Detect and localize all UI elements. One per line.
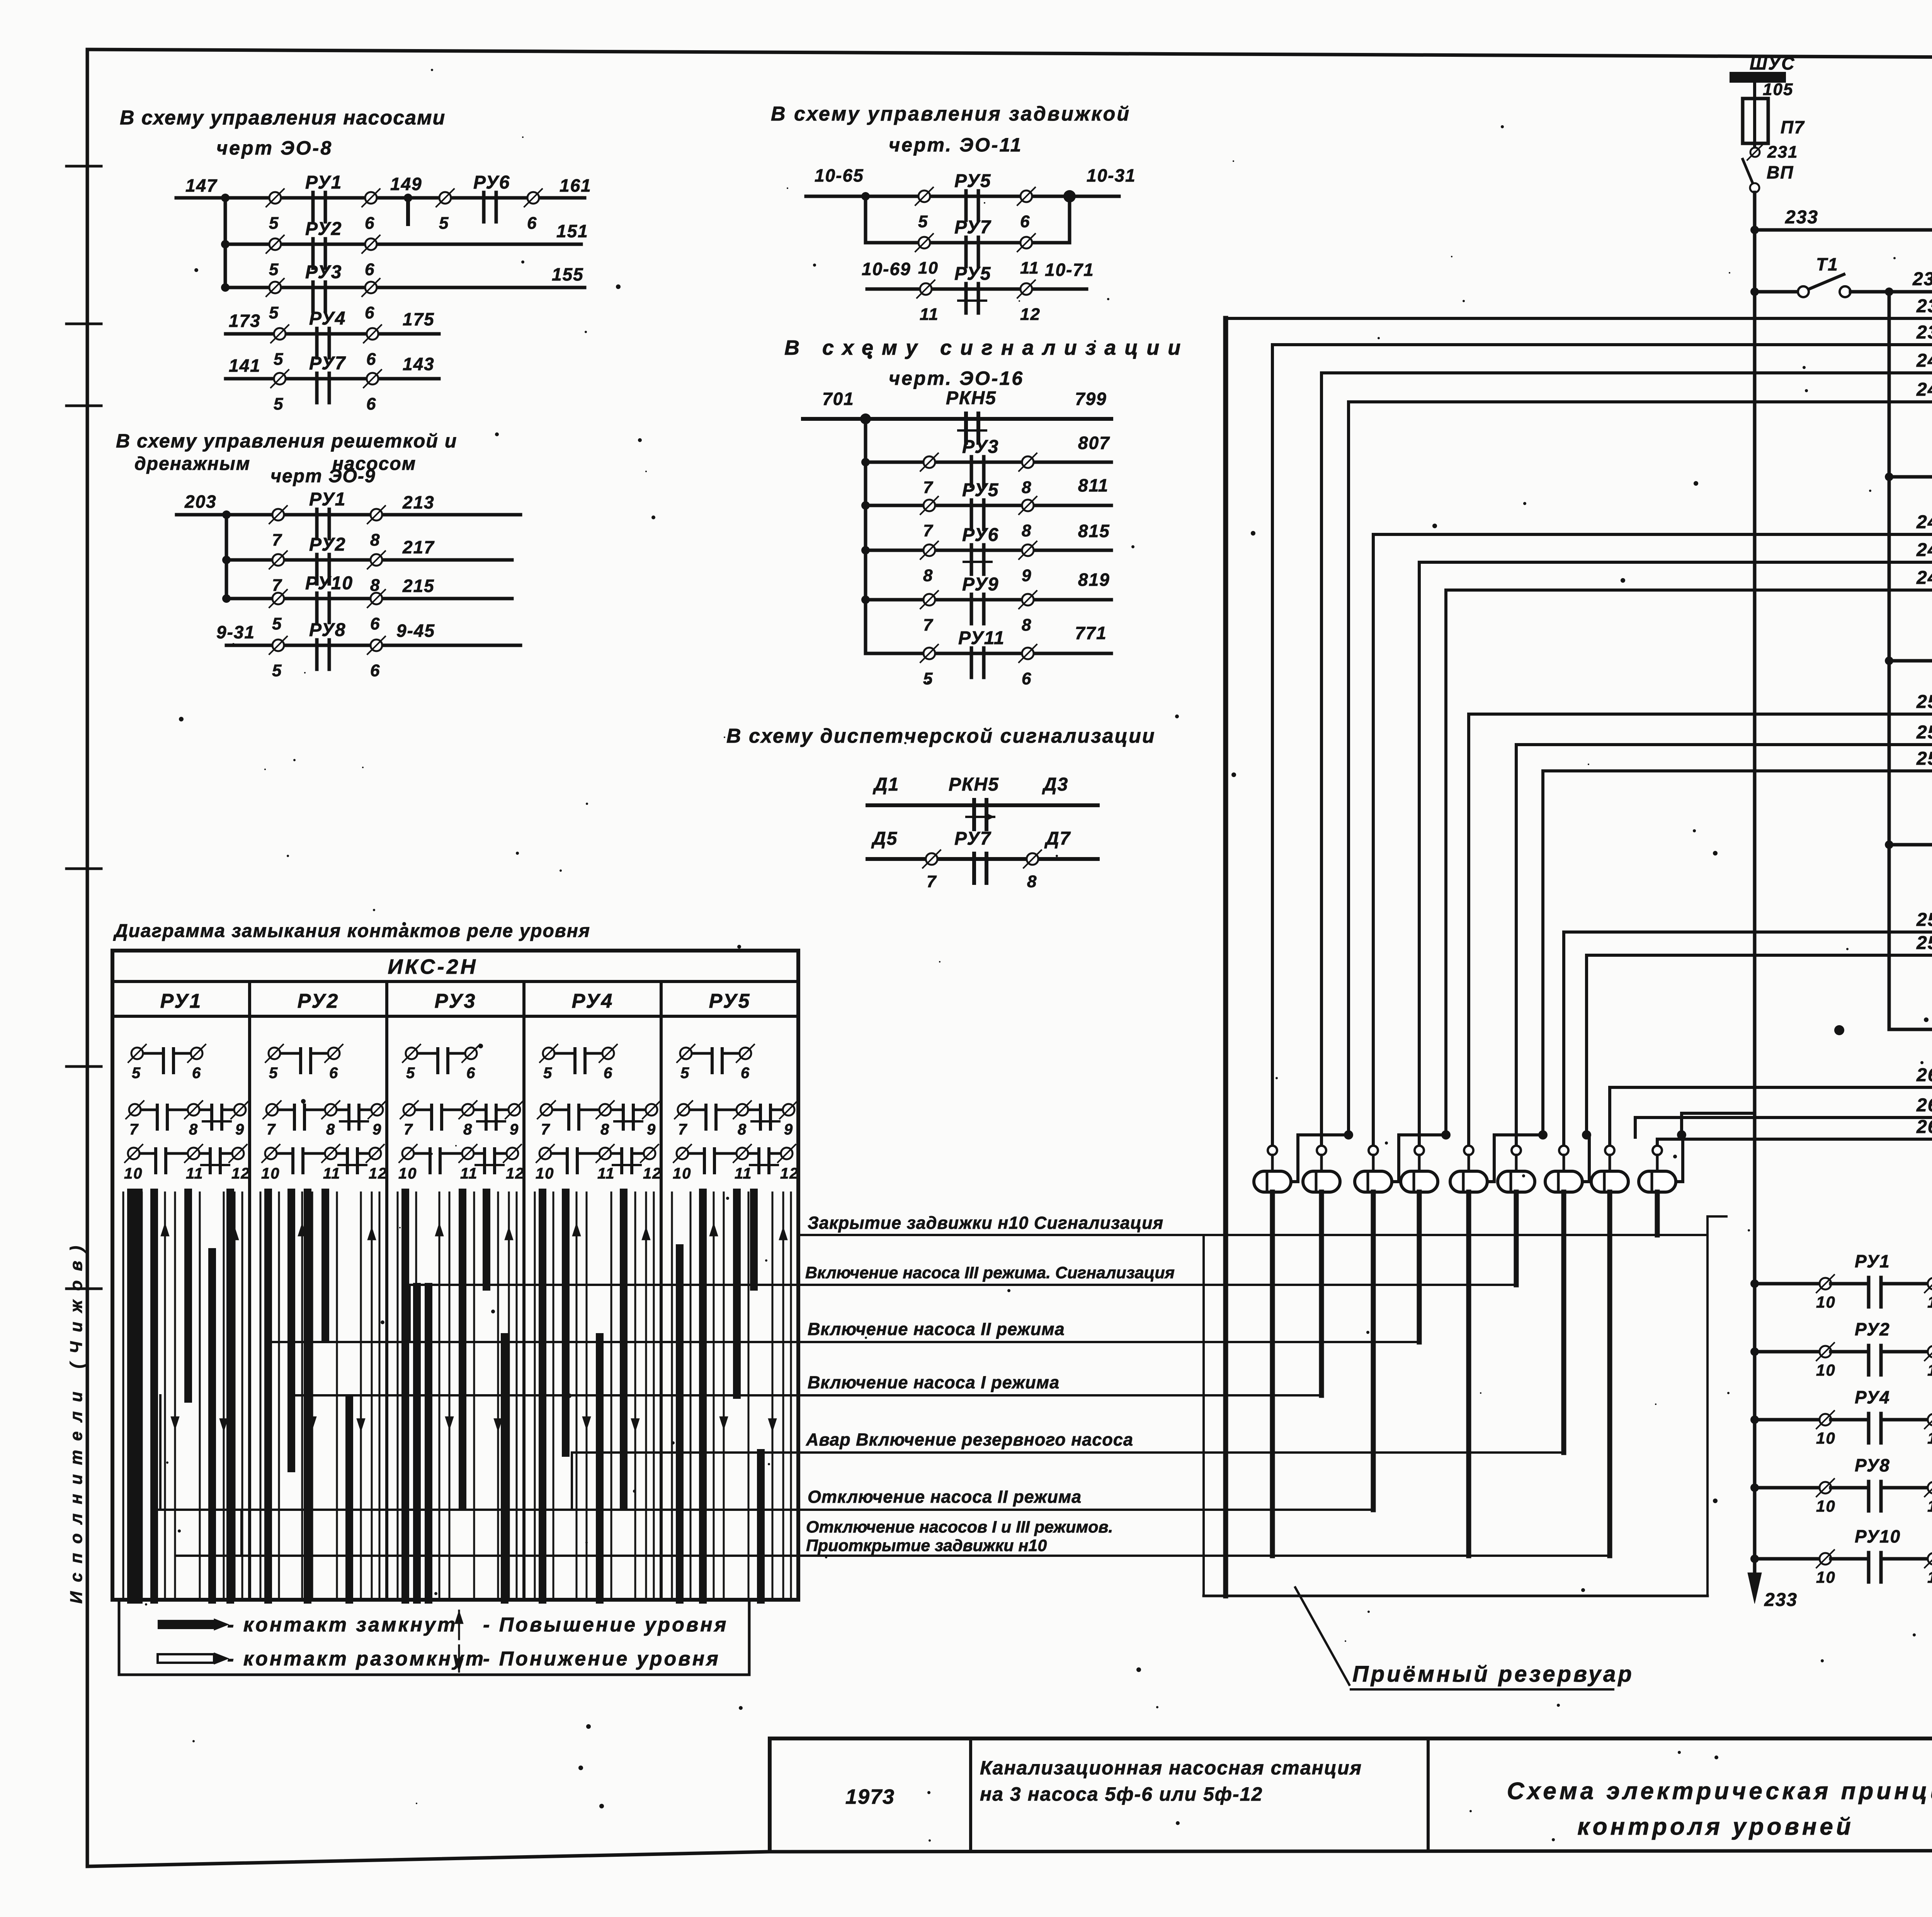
contact РУ9 7-8 bbox=[920, 574, 1037, 634]
svg-text:В схему диспетчерской сигнализ: В схему диспетчерской сигнализации bbox=[726, 725, 1156, 747]
svg-text:9-45: 9-45 bbox=[396, 621, 435, 641]
svg-text:6: 6 bbox=[366, 395, 376, 413]
wire 10-69 to 10-71 (EO-11 row 3) bbox=[862, 259, 1094, 289]
svg-text:11: 11 bbox=[1927, 1568, 1932, 1586]
svg-text:819: 819 bbox=[1078, 570, 1110, 590]
contact РКН5 crossed bbox=[946, 388, 997, 443]
contact РУ6 5-6 bbox=[436, 172, 542, 233]
svg-text:РУ5: РУ5 bbox=[954, 171, 991, 191]
svg-text:В схему управления задвижкой: В схему управления задвижкой bbox=[771, 103, 1131, 125]
svg-text:1973: 1973 bbox=[845, 1785, 895, 1808]
wire 255 horizontal + vertical drop to jog junction bbox=[1543, 771, 1932, 1137]
svg-text:10-31: 10-31 bbox=[1087, 165, 1136, 185]
svg-text:12: 12 bbox=[1020, 305, 1041, 324]
parallel branch wire РУ7 (EO-11 row 2) bbox=[866, 196, 1070, 243]
svg-text:- контакт замкнут: - контакт замкнут bbox=[227, 1614, 457, 1636]
svg-text:- Повышение уровня: - Повышение уровня bbox=[483, 1614, 728, 1636]
legend box bbox=[119, 1600, 749, 1675]
svg-text:7: 7 bbox=[923, 616, 934, 634]
svg-text:В схему сигнализации: В схему сигнализации bbox=[784, 336, 1189, 359]
svg-text:10: 10 bbox=[1816, 1497, 1836, 1515]
svg-text:7: 7 bbox=[404, 1121, 413, 1138]
svg-text:- контакт разомкнут: - контакт разомкнут bbox=[227, 1648, 485, 1670]
svg-text:РУ8: РУ8 bbox=[1855, 1455, 1890, 1475]
svg-text:Т1: Т1 bbox=[1816, 254, 1838, 274]
svg-text:РУ2: РУ2 bbox=[309, 534, 346, 555]
svg-text:9: 9 bbox=[510, 1121, 519, 1138]
wire Д5-Д7 with contact РУ7 7-8 bbox=[867, 828, 1098, 891]
table contacts column 5 row 5-6 bbox=[677, 1044, 754, 1082]
svg-text:141: 141 bbox=[229, 356, 261, 376]
svg-text:7: 7 bbox=[272, 576, 282, 595]
svg-text:10: 10 bbox=[1816, 1361, 1836, 1379]
svg-text:249: 249 bbox=[1916, 568, 1932, 588]
svg-text:5: 5 bbox=[272, 614, 282, 633]
svg-text:РУ2: РУ2 bbox=[305, 219, 342, 239]
table contacts column 2 row 7-8-9 bbox=[263, 1101, 386, 1138]
wire 9-31 to 9-45 (EO-9 row 4) bbox=[216, 621, 520, 645]
svg-text:5: 5 bbox=[918, 212, 928, 231]
contact РУ7 10-11 bbox=[915, 217, 1039, 277]
legend down arrow: понижение уровня bbox=[455, 1645, 720, 1672]
svg-text:173: 173 bbox=[229, 311, 261, 331]
svg-text:161: 161 bbox=[560, 175, 592, 196]
svg-text:11: 11 bbox=[323, 1165, 341, 1182]
svg-text:6: 6 bbox=[604, 1065, 613, 1082]
svg-text:8: 8 bbox=[463, 1121, 473, 1138]
svg-text:8: 8 bbox=[600, 1121, 610, 1138]
svg-text:12: 12 bbox=[506, 1165, 525, 1182]
svg-text:7: 7 bbox=[541, 1121, 550, 1138]
svg-text:РУ8: РУ8 bbox=[309, 620, 346, 640]
svg-text:Д3: Д3 bbox=[1042, 774, 1068, 795]
table contacts column 4 row 5-6 bbox=[540, 1044, 617, 1082]
svg-text:10: 10 bbox=[398, 1165, 417, 1182]
contactor Т1 bbox=[1750, 254, 1850, 297]
svg-text:263: 263 bbox=[1916, 1095, 1932, 1116]
svg-text:11: 11 bbox=[597, 1165, 615, 1182]
wire to 819 (EO-16 row 5) bbox=[866, 570, 1111, 600]
signal line: Авар включение резервного насоса bbox=[572, 1430, 1562, 1453]
svg-text:10-65: 10-65 bbox=[815, 165, 864, 185]
signal line: Закрытие задвижки н10 Сигнализация bbox=[798, 1213, 1708, 1235]
tank Приёмный резервуар outline bbox=[1204, 1216, 1726, 1596]
wire РУ4 pin14 feed bbox=[1889, 843, 1932, 847]
svg-text:10: 10 bbox=[261, 1165, 280, 1182]
svg-text:6: 6 bbox=[192, 1065, 201, 1082]
svg-text:8: 8 bbox=[370, 576, 380, 595]
svg-text:РУ10: РУ10 bbox=[1855, 1526, 1901, 1546]
wire 235 bbox=[1850, 269, 1932, 292]
svg-text:6: 6 bbox=[365, 260, 375, 279]
contact РУ1 7-8 bbox=[269, 489, 385, 549]
svg-text:5: 5 bbox=[272, 661, 282, 680]
contact РУ5 5-6 bbox=[915, 171, 1035, 231]
svg-text:черт. ЭО-16: черт. ЭО-16 bbox=[889, 367, 1024, 389]
svg-text:9: 9 bbox=[784, 1121, 793, 1138]
svg-text:233: 233 bbox=[1785, 207, 1818, 228]
wire 257 horizontal + drop to electrode bbox=[1564, 932, 1932, 1146]
svg-text:10-69: 10-69 bbox=[862, 259, 911, 279]
timing bars column 1 bbox=[123, 1192, 242, 1600]
svg-text:8: 8 bbox=[923, 566, 933, 585]
svg-text:8: 8 bbox=[738, 1121, 747, 1138]
svg-text:12: 12 bbox=[780, 1165, 799, 1182]
svg-text:151: 151 bbox=[556, 221, 588, 241]
svg-text:РУ1: РУ1 bbox=[1855, 1251, 1890, 1271]
svg-text:11: 11 bbox=[735, 1165, 752, 1182]
node 233 bbox=[1750, 207, 1818, 234]
legend up arrow: повышение уровня bbox=[455, 1611, 728, 1639]
svg-text:РУ1: РУ1 bbox=[305, 172, 342, 193]
svg-text:11: 11 bbox=[1927, 1361, 1932, 1379]
svg-text:5: 5 bbox=[406, 1065, 415, 1082]
svg-text:7: 7 bbox=[923, 478, 934, 497]
svg-text:6: 6 bbox=[527, 214, 537, 233]
svg-text:6: 6 bbox=[466, 1065, 476, 1082]
svg-text:811: 811 bbox=[1078, 475, 1109, 495]
svg-text:8: 8 bbox=[1022, 521, 1032, 540]
svg-text:12: 12 bbox=[369, 1165, 388, 1182]
svg-text:175: 175 bbox=[403, 309, 435, 329]
svg-text:701: 701 bbox=[822, 389, 854, 409]
svg-text:Отключение насосов I и III реж: Отключение насосов I и III режимов. bbox=[806, 1518, 1113, 1536]
svg-text:12: 12 bbox=[231, 1165, 250, 1182]
signal line: Включение насоса I режима bbox=[291, 1373, 1320, 1395]
svg-text:РУ1: РУ1 bbox=[309, 489, 346, 510]
text: В схему управления насосами черт ЭО-8 bbox=[120, 107, 446, 159]
svg-text:5: 5 bbox=[923, 669, 933, 688]
table contacts column 4 row 7-8-9 bbox=[537, 1101, 660, 1138]
svg-text:147: 147 bbox=[185, 175, 218, 196]
level arrows column 4 bbox=[572, 1223, 650, 1432]
electrode at x=4166 (circle, holder, stem to level 4026) bbox=[1591, 1146, 1628, 1556]
svg-text:РУ6: РУ6 bbox=[962, 525, 999, 545]
svg-text:Схема электрическая принципиал: Схема электрическая принципиальная bbox=[1507, 1778, 1932, 1805]
svg-text:черт ЭО-9: черт ЭО-9 bbox=[270, 466, 376, 486]
level arrows column 5 bbox=[709, 1223, 787, 1432]
svg-text:8: 8 bbox=[1027, 872, 1037, 891]
svg-text:9: 9 bbox=[372, 1121, 382, 1138]
wire 243 horizontal + vertical drop to jog junction bbox=[1349, 402, 1932, 1137]
svg-text:815: 815 bbox=[1078, 521, 1110, 541]
electrode at x=3293 (circle, holder, stem to level 4026) bbox=[1254, 1146, 1291, 1556]
svg-text:Авар Включение резервного насо: Авар Включение резервного насоса bbox=[806, 1430, 1133, 1449]
svg-text:Исполнители (Чижов): Исполнители (Чижов) bbox=[67, 1237, 86, 1604]
svg-text:РУ5: РУ5 bbox=[709, 990, 751, 1012]
signal line: Отключение насосов I и III режимов bbox=[177, 1518, 1610, 1556]
wire from last jog vertical to bus 233 bbox=[1682, 1113, 1755, 1137]
svg-text:РУ11: РУ11 bbox=[958, 628, 1005, 648]
electrode at x=3420 (circle, holder, stem to level 3611) bbox=[1303, 1146, 1340, 1395]
bus of EO-9 rows bbox=[222, 515, 231, 603]
svg-text:РУ10: РУ10 bbox=[305, 573, 353, 594]
lamp circuit ЛУ10 (РУ10 contact, wire 275) bbox=[1750, 1522, 1932, 1586]
svg-text:на 3 насоса 5ф-6 или 5ф-12: на 3 насоса 5ф-6 или 5ф-12 bbox=[980, 1783, 1263, 1805]
wire Д1-Д3 with contact РКН5 bbox=[867, 774, 1098, 829]
svg-text:245: 245 bbox=[1916, 512, 1932, 532]
text: В схему управления задвижкой черт. ЭО-11 bbox=[771, 103, 1131, 156]
fuse П7 bbox=[1743, 99, 1805, 148]
svg-text:261: 261 bbox=[1916, 1065, 1932, 1085]
wire 253 horizontal + drop to electrode bbox=[1516, 745, 1932, 1146]
svg-text:5: 5 bbox=[269, 303, 279, 322]
jog wire from electrode 4289 to vertical 4352 bbox=[1676, 1130, 1686, 1182]
wire 10-65 to 10-31 (EO-11 row 1) bbox=[806, 165, 1136, 196]
table contacts column 2 row 10-11-12 bbox=[261, 1145, 388, 1182]
table contacts column 1 row 10-11-12 bbox=[124, 1145, 250, 1182]
svg-text:253: 253 bbox=[1916, 722, 1932, 743]
svg-text:черт ЭО-8: черт ЭО-8 bbox=[216, 137, 333, 159]
svg-text:ИКС-2Н: ИКС-2Н bbox=[388, 955, 478, 978]
svg-text:213: 213 bbox=[402, 492, 435, 512]
contact РУ2 7-8 bbox=[269, 534, 385, 595]
wire 261 horizontal + drop to electrode bbox=[1610, 1087, 1932, 1146]
wire 263 horizontal + vertical drop bbox=[1635, 1118, 1932, 1137]
svg-text:11: 11 bbox=[1927, 1497, 1932, 1515]
svg-text:143: 143 bbox=[403, 354, 435, 374]
bus 233 vertical bbox=[1753, 230, 1757, 1590]
svg-text:8: 8 bbox=[1022, 478, 1032, 497]
jog wire from electrode 3801 to vertical 3993 bbox=[1487, 1130, 1548, 1182]
svg-text:РУ5: РУ5 bbox=[962, 480, 999, 500]
table ИКС-2Н outer box bbox=[112, 951, 798, 1600]
contact РУ7 5-6 bbox=[271, 353, 381, 413]
svg-text:149: 149 bbox=[390, 174, 422, 194]
svg-text:Д7: Д7 bbox=[1044, 828, 1071, 849]
svg-text:РУ2: РУ2 bbox=[298, 990, 340, 1012]
lamp circuit ЛУ1 (РУ1 contact, wire 267) bbox=[1750, 1247, 1932, 1311]
contact РУ11 5-6 bbox=[920, 628, 1037, 688]
contact РУ3 5-6 bbox=[266, 262, 380, 322]
svg-text:РКН5: РКН5 bbox=[946, 388, 997, 408]
svg-text:8: 8 bbox=[326, 1121, 335, 1138]
svg-text:239: 239 bbox=[1916, 322, 1932, 343]
title block box bbox=[770, 1738, 1932, 1851]
svg-text:243: 243 bbox=[1916, 379, 1932, 400]
svg-text:799: 799 bbox=[1075, 389, 1107, 409]
text: В схему сигнализации черт. ЭО-16 bbox=[784, 336, 1189, 389]
svg-text:6: 6 bbox=[329, 1065, 338, 1082]
svg-text:8: 8 bbox=[370, 531, 380, 549]
wire 237 common electrode stem to tank bottom bbox=[1223, 318, 1228, 1596]
wire 237 horizontal + vertical drop bbox=[1226, 318, 1932, 1137]
svg-text:8: 8 bbox=[1022, 616, 1032, 634]
timing bars column 3 bbox=[398, 1192, 517, 1600]
svg-text:7: 7 bbox=[272, 531, 282, 549]
node left EO-11 bbox=[861, 192, 870, 201]
electrode at x=3673 (circle, holder, stem to level 3473) bbox=[1401, 1146, 1438, 1342]
svg-text:11: 11 bbox=[1020, 259, 1039, 277]
svg-text:255: 255 bbox=[1916, 748, 1932, 769]
svg-text:235: 235 bbox=[1912, 269, 1932, 289]
svg-text:5: 5 bbox=[132, 1065, 141, 1082]
lamp circuit ЛУ8 (РУ8 contact, wire 273) bbox=[1750, 1451, 1932, 1515]
svg-text:10: 10 bbox=[1816, 1429, 1836, 1447]
svg-text:В схему управления насосами: В схему управления насосами bbox=[120, 107, 446, 129]
switch ВП bbox=[1743, 159, 1794, 192]
svg-text:6: 6 bbox=[365, 214, 375, 233]
wire 701 to 799 (EO-16 row 1) bbox=[803, 389, 1111, 419]
node at 147 branch bbox=[221, 194, 230, 202]
contact РУ5 7-8 bbox=[920, 480, 1037, 540]
svg-text:7: 7 bbox=[129, 1121, 139, 1138]
wire to 807 (EO-16 row 2) bbox=[866, 433, 1111, 462]
table contacts column 5 row 10-11-12 bbox=[673, 1145, 799, 1182]
svg-text:В схему управления решеткой и: В схему управления решеткой и bbox=[116, 430, 457, 452]
table contacts column 3 row 10-11-12 bbox=[398, 1145, 525, 1182]
jog wire from electrode 3293 to vertical 3490 bbox=[1291, 1130, 1353, 1182]
svg-text:231: 231 bbox=[1767, 143, 1798, 162]
svg-text:11: 11 bbox=[920, 305, 939, 324]
contact РУ5 11-12 crossed bbox=[917, 264, 1041, 324]
svg-text:РУ7: РУ7 bbox=[954, 828, 992, 849]
svg-text:265: 265 bbox=[1916, 1117, 1932, 1137]
svg-text:РУ6: РУ6 bbox=[473, 172, 510, 193]
svg-text:215: 215 bbox=[402, 576, 435, 596]
wire to 215 (EO-9 row 3) bbox=[226, 576, 512, 599]
svg-text:РУ4: РУ4 bbox=[572, 990, 614, 1012]
svg-text:- Понижение уровня: - Понижение уровня bbox=[483, 1648, 720, 1670]
wire to 815 (EO-16 row 4) bbox=[866, 521, 1111, 550]
svg-text:черт. ЭО-11: черт. ЭО-11 bbox=[889, 134, 1022, 156]
svg-text:Канализационная насосная станц: Канализационная насосная станция bbox=[980, 1757, 1362, 1779]
wire 247 horizontal + drop to electrode bbox=[1419, 562, 1932, 1146]
svg-text:5: 5 bbox=[269, 260, 279, 279]
tank label leader line bbox=[1295, 1587, 1349, 1685]
wire to 151 (EO-8 row 2) bbox=[225, 221, 588, 244]
svg-text:203: 203 bbox=[184, 492, 217, 512]
contact РУ10 5-6 bbox=[269, 573, 385, 633]
table contacts column 1 row 7-8-9 bbox=[126, 1101, 249, 1138]
table contacts column 4 row 10-11-12 bbox=[536, 1145, 662, 1182]
svg-text:9-31: 9-31 bbox=[216, 622, 255, 642]
wire РУ5 pin14 feed bbox=[1889, 1028, 1932, 1031]
svg-text:9: 9 bbox=[235, 1121, 245, 1138]
electrode at x=3924 (circle, holder, stem to level 3325) bbox=[1498, 1146, 1535, 1285]
table contacts column 3 row 7-8-9 bbox=[400, 1101, 523, 1138]
svg-text:7: 7 bbox=[923, 521, 934, 540]
contact РУ8 5-6 bbox=[269, 620, 385, 680]
text: В схему управления решеткой и дренажным насосом черт ЭО-9 bbox=[116, 430, 457, 486]
svg-text:5: 5 bbox=[269, 214, 279, 233]
table contacts column 2 row 5-6 bbox=[265, 1044, 343, 1082]
node 701 branch bbox=[860, 413, 871, 424]
svg-text:ШУС: ШУС bbox=[1750, 53, 1795, 73]
svg-text:Включение насоса I режима: Включение насоса I режима bbox=[808, 1373, 1060, 1392]
svg-text:11: 11 bbox=[186, 1165, 204, 1182]
svg-text:Д1: Д1 bbox=[872, 774, 899, 795]
svg-text:10: 10 bbox=[124, 1165, 143, 1182]
wire 147 row (EO-8 row 1) bbox=[176, 175, 585, 198]
wire 245 horizontal + drop to electrode bbox=[1373, 534, 1932, 1146]
svg-text:10-71: 10-71 bbox=[1045, 260, 1094, 280]
svg-text:6: 6 bbox=[741, 1065, 750, 1082]
signal line: Отключение насоса II режима bbox=[156, 1487, 1370, 1510]
wire 241 horizontal + drop to electrode bbox=[1321, 373, 1932, 1146]
svg-text:РУ5: РУ5 bbox=[954, 264, 991, 284]
wire to 771 (EO-16 row 6) bbox=[866, 623, 1111, 653]
wire 141-143 (EO-8 row 5) bbox=[226, 354, 439, 379]
table contacts column 3 row 5-6 bbox=[403, 1044, 480, 1082]
svg-text:10: 10 bbox=[536, 1165, 554, 1182]
svg-text:7: 7 bbox=[927, 872, 937, 891]
svg-text:РУ4: РУ4 bbox=[1855, 1387, 1890, 1407]
contact РУ4 5-6 bbox=[271, 308, 381, 369]
legend open contact symbol bbox=[158, 1648, 485, 1670]
wire 265 horizontal + drop to electrode bbox=[1657, 1139, 1932, 1146]
text: Приёмный резервуар bbox=[1351, 1662, 1634, 1689]
svg-text:РУ2: РУ2 bbox=[1855, 1319, 1890, 1339]
svg-text:ВП: ВП bbox=[1767, 162, 1794, 182]
svg-text:РУ9: РУ9 bbox=[962, 574, 999, 595]
signal line: Включение насоса III режима Сигнализация bbox=[410, 1264, 1514, 1285]
svg-text:5: 5 bbox=[274, 395, 284, 413]
svg-text:11: 11 bbox=[460, 1165, 478, 1182]
node 231 bbox=[1747, 143, 1798, 162]
svg-text:Отключение насоса II режима: Отключение насоса II режима bbox=[808, 1487, 1082, 1507]
bus of EO-8 rows 1-3 bbox=[221, 198, 230, 292]
contact РУ3 7-8 bbox=[920, 437, 1037, 497]
bus ШУС bbox=[1730, 53, 1795, 99]
svg-text:247: 247 bbox=[1916, 540, 1932, 560]
svg-text:6: 6 bbox=[365, 303, 375, 322]
svg-text:5: 5 bbox=[543, 1065, 553, 1082]
svg-text:10: 10 bbox=[918, 259, 939, 277]
wire 233 to РКН3 bbox=[1755, 228, 1932, 232]
vertical feeder from 235 bbox=[1885, 292, 1893, 1029]
svg-text:6: 6 bbox=[1020, 212, 1030, 231]
svg-text:155: 155 bbox=[552, 264, 584, 284]
svg-text:8: 8 bbox=[189, 1121, 198, 1138]
svg-text:5: 5 bbox=[274, 350, 284, 369]
svg-text:6: 6 bbox=[370, 614, 380, 633]
level arrows column 2 bbox=[298, 1223, 376, 1432]
svg-text:РУ4: РУ4 bbox=[309, 308, 346, 329]
left margin tick marks bbox=[66, 166, 101, 1289]
node right EO-11 bbox=[1063, 190, 1076, 202]
svg-text:217: 217 bbox=[402, 537, 435, 557]
svg-text:771: 771 bbox=[1075, 623, 1107, 643]
wire 251 horizontal + drop to electrode bbox=[1469, 714, 1932, 1146]
timing bars column 2 bbox=[260, 1192, 379, 1600]
svg-text:11: 11 bbox=[1927, 1429, 1932, 1447]
svg-text:233: 233 bbox=[1764, 1590, 1798, 1610]
svg-text:807: 807 bbox=[1078, 433, 1110, 453]
contact РУ6 8-9 crossed bbox=[920, 525, 1037, 585]
svg-text:РУ7: РУ7 bbox=[954, 217, 992, 238]
bus of EO-16 rows bbox=[861, 419, 870, 653]
jog wire from electrode 4047 to vertical 4106 bbox=[1582, 1130, 1591, 1182]
svg-text:7: 7 bbox=[267, 1121, 276, 1138]
node at 203 branch bbox=[222, 510, 231, 519]
wire 239 horizontal + drop to electrode bbox=[1272, 345, 1932, 1146]
electrode at x=3554 (circle, holder, stem to level 3907) bbox=[1355, 1146, 1392, 1510]
legend closed contact symbol bbox=[158, 1614, 457, 1636]
electrode at x=4047 (circle, holder, stem to level 3759) bbox=[1545, 1146, 1582, 1453]
title block sheet name bbox=[1507, 1778, 1932, 1840]
svg-text:Д5: Д5 bbox=[871, 828, 898, 849]
table contacts column 1 row 5-6 bbox=[128, 1044, 206, 1082]
svg-text:10: 10 bbox=[1816, 1293, 1836, 1311]
svg-text:237: 237 bbox=[1916, 296, 1932, 316]
svg-text:6: 6 bbox=[366, 350, 376, 369]
wire to 217 (EO-9 row 2) bbox=[226, 537, 512, 560]
svg-text:251: 251 bbox=[1916, 692, 1932, 712]
svg-text:контроля уровней: контроля уровней bbox=[1577, 1813, 1854, 1840]
svg-text:РКН5: РКН5 bbox=[949, 774, 999, 795]
table contacts column 5 row 7-8-9 bbox=[675, 1101, 798, 1138]
